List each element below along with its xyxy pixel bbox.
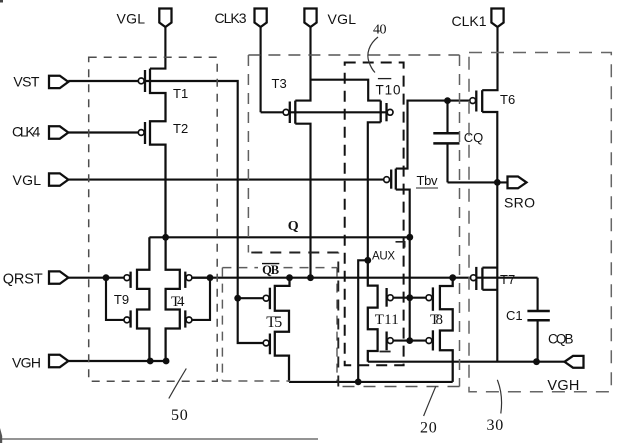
transistor T11 upper gate bar: [385, 288, 387, 307]
svg-text:T8: T8: [430, 312, 443, 328]
svg-text:VGH: VGH: [12, 354, 41, 370]
wire T6 drain down to VGH (through SRO): [482, 112, 497, 362]
wire VST to T1 gate and down to T5 gates: [68, 81, 237, 298]
junction T4 bottom on VGH: [163, 358, 170, 365]
wire T8 gate leads: [410, 297, 426, 299]
scan artifact bottom-left corner: [0, 428, 2, 443]
junction Tbv drain on Q line: [406, 234, 413, 241]
terminal VST (left): [49, 76, 68, 88]
transistor T10 gate bar: [385, 103, 387, 121]
transistor T8 upper gate bubble: [426, 295, 432, 301]
wire CLK3 stem down to T3 gate row: [260, 27, 262, 112]
wire T11 gate leads: [393, 297, 410, 299]
junction QRST gate split: [103, 274, 110, 281]
wire VGL stem to T1 top: [150, 27, 165, 68]
junction AUX on bottom row: [355, 379, 362, 386]
transistor T10 channel bar: [380, 101, 382, 123]
transistor T8 lower gate bar: [432, 330, 434, 350]
capacitor C1 top stem from QB line: [537, 278, 539, 311]
wire branch to T10 top lead: [311, 80, 381, 101]
transistor Tbv gate bubble: [384, 177, 390, 183]
transistor T4 lower gate bar: [184, 310, 186, 327]
dashed box 20 (stepped outline): [246, 55, 460, 387]
junction Q / T1-T2 output: [162, 234, 169, 241]
transistor T9 lower gate bar: [129, 310, 131, 327]
svg-text:Tbv: Tbv: [417, 173, 439, 188]
dashed box around T5: [222, 268, 337, 381]
junction T4 gates on QB: [207, 274, 214, 281]
svg-text:T11: T11: [375, 312, 399, 328]
stray black dash above T11 bottom: [380, 351, 391, 353]
wire CLK4 to T2 gate: [68, 131, 138, 133]
scan artifact top-left dot: [0, 0, 3, 3]
transistor T11 lower gate bubble: [387, 338, 393, 344]
svg-text:C1: C1: [506, 308, 523, 323]
capacitor CQ plates: [433, 133, 459, 143]
transistor T4 lower gate bubble: [186, 317, 192, 323]
junction SRO: [494, 179, 501, 186]
svg-text:QRST: QRST: [3, 272, 43, 288]
wire T3 drain down to QB: [295, 124, 310, 278]
svg-text:CLK4: CLK4: [12, 124, 41, 140]
svg-text:T7: T7: [500, 272, 515, 287]
transistor T8 channel path: [440, 278, 453, 382]
svg-text:QB: QB: [262, 263, 279, 277]
wire Tbv drain down through Q to T11/T8 gates: [396, 190, 410, 341]
svg-text:50: 50: [171, 407, 188, 424]
wire Q node line: [149, 236, 409, 238]
wire T3/T10 common gate row (through line): [261, 111, 387, 113]
terminal SRO (output): [508, 177, 527, 189]
wire AUX bottom row (T5/T8 common): [289, 381, 453, 383]
wire CLK1 stem down to T6 top lead: [482, 27, 497, 90]
svg-text:CQ: CQ: [464, 130, 484, 145]
transistor T2 gate bubble: [138, 130, 144, 136]
wire T10 drain down to AUX node: [368, 122, 381, 260]
transistor T3 channel bar: [294, 101, 296, 124]
junction T5 top on QB: [286, 274, 293, 281]
transistor T5 upper gate bubble: [263, 295, 269, 301]
wire AUX link down to bottom row: [358, 260, 368, 382]
transistor T6 gate bubble: [470, 98, 476, 104]
svg-text:CLK3: CLK3: [215, 10, 247, 26]
capacitor CQ top stem: [446, 101, 448, 134]
terminal VGH (left): [49, 355, 68, 367]
transistor T4 channel path: [166, 237, 180, 361]
transistor T11 upper gate bubble: [387, 295, 393, 301]
wire VGH to T9/T4 bottoms: [68, 360, 166, 362]
transistor T6 channel path: [481, 90, 483, 112]
scan artifact bottom line: [0, 438, 318, 440]
transistor T11 channel path: [368, 260, 378, 361]
svg-text:T2: T2: [173, 121, 188, 136]
transistor T9 upper gate bar: [129, 272, 131, 288]
transistor T4 upper gate bar: [184, 272, 186, 288]
wire SRO node row: [448, 181, 508, 183]
transistor T5 lower gate bubble: [263, 340, 269, 346]
transistor T8 upper gate bar: [432, 287, 434, 310]
svg-text:T3: T3: [272, 76, 287, 91]
wire QB node line (through T7 to C1): [192, 277, 538, 279]
wire T5 gate link from VST line: [238, 297, 264, 299]
junction T11/T8 lower gates: [406, 337, 413, 344]
transistor T5 channel path: [275, 278, 290, 382]
svg-text:T1: T1: [173, 86, 188, 101]
junction T3 drain on QB: [307, 274, 314, 281]
transistor T8 lower gate bubble: [426, 338, 432, 344]
svg-text:T6: T6: [500, 92, 515, 107]
transistor T7 gate bar: [475, 267, 477, 290]
wire VGH right row: [368, 361, 565, 363]
svg-text:AUX: AUX: [372, 251, 395, 263]
capacitor C1 plates: [527, 311, 549, 320]
transistor T1 gate bar: [144, 70, 146, 92]
junction C1 on VGH: [533, 358, 540, 365]
transistor T3 gate bar: [289, 102, 291, 124]
wire Q node row: Tbv top lead up and over to T6 gate: [396, 101, 470, 169]
stray dash tick near Q line (box 40 inner): [396, 242, 405, 248]
transistor T2 gate bar: [144, 122, 146, 144]
wire VGL2 stem down to T3 top lead: [295, 27, 310, 100]
terminal CLK3 (top): [255, 9, 267, 28]
wire VGL line to Tbv gate: [68, 179, 383, 181]
wire T7 bottom lead: [482, 289, 497, 291]
terminal VGH (bottom right, pointing left): [565, 356, 584, 368]
transistor T3 gate bubble: [283, 109, 289, 115]
terminal VGL (left third): [49, 173, 68, 185]
wire T4 lower gate link: [192, 278, 210, 320]
transistor T5 lower gate bar: [269, 334, 271, 355]
transistor T10 gate bubble: [387, 109, 393, 115]
svg-text:CLK1: CLK1: [452, 13, 487, 29]
svg-text:SRO: SRO: [504, 195, 535, 211]
junction T5 gates: [234, 295, 241, 302]
terminal CLK1 (top): [491, 9, 503, 28]
junction Q node at T6 gate: [444, 97, 451, 104]
svg-text:T9: T9: [114, 292, 129, 307]
transistor T5 upper gate bar: [269, 288, 271, 310]
capacitor CQ bottom stem: [446, 143, 448, 182]
svg-text:Q: Q: [288, 219, 299, 234]
capacitor C1 bottom stem: [537, 320, 539, 361]
label T10 with overline: [378, 78, 391, 80]
terminal CLK4 (left): [49, 126, 68, 138]
transistor T9 channel path: [137, 237, 149, 361]
junction T11/T8 upper gates: [406, 294, 413, 301]
wire T7 top lead: [482, 267, 497, 269]
dashed box 40 (black): [345, 63, 404, 366]
svg-text:30: 30: [487, 417, 504, 434]
svg-text:VST: VST: [13, 74, 39, 90]
terminal VGL (top, first): [159, 9, 171, 28]
svg-text:VGL: VGL: [13, 172, 42, 188]
svg-text:T10: T10: [376, 83, 401, 98]
transistor Tbv gate bar: [390, 170, 392, 189]
transistor T9 lower gate bubble: [124, 317, 130, 323]
junction T8/T7 on QB: [449, 274, 456, 281]
svg-text:40: 40: [373, 22, 387, 37]
junction T9 bottom on VGH: [147, 358, 154, 365]
wire QRST branch to T9 lower gate: [106, 278, 124, 320]
svg-text:20: 20: [420, 420, 437, 437]
node AUX: [364, 257, 371, 264]
transistor T11 lower gate bar: [385, 332, 387, 351]
transistor T4 upper gate bubble: [186, 275, 192, 281]
terminal QRST (left): [49, 271, 68, 283]
svg-text:VGL: VGL: [328, 11, 357, 27]
transistor T7 gate bubble: [471, 275, 477, 281]
wire QRST to T9 gates: [68, 277, 124, 279]
wire T4 gates to QB: [192, 277, 210, 279]
transistor T9 upper gate bubble: [124, 275, 130, 281]
terminal VGL (top, second): [304, 9, 316, 28]
transistor T1 (channel path from VGL stem): [150, 69, 166, 238]
svg-text:VGL: VGL: [117, 11, 146, 27]
dashed box 30: [469, 53, 611, 392]
transistor Tbv channel bar: [395, 169, 397, 190]
transistor T7 channel bar: [481, 268, 483, 290]
svg-text:T4: T4: [171, 294, 185, 310]
transistor T1 gate bubble: [138, 78, 144, 84]
svg-text:T5: T5: [266, 314, 282, 331]
dashed box 50 (first control sub-circuit): [89, 57, 218, 381]
transistor T6 gate bar: [475, 91, 477, 112]
svg-text:CQB: CQB: [548, 332, 574, 347]
